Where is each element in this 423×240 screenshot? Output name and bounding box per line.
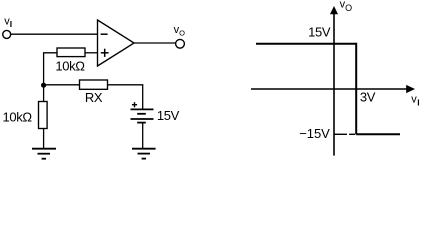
battery V1 plus sign <box>132 102 137 107</box>
svg-text:10kΩ: 10kΩ <box>3 109 33 124</box>
wire RX to battery <box>108 85 143 110</box>
svg-text:3V: 3V <box>360 90 376 105</box>
input terminal vI <box>3 30 11 38</box>
op-amp minus pin mark <box>101 33 108 35</box>
wire resistor R1 to vertical branch <box>44 53 57 102</box>
resistor RX <box>80 80 108 89</box>
svg-text:15V: 15V <box>308 24 331 39</box>
ground resistor <box>32 149 56 159</box>
battery V1 <box>131 109 154 122</box>
svg-text:RX: RX <box>85 90 103 105</box>
graph vO axis <box>333 12 335 156</box>
curve +15V level segment <box>256 43 356 45</box>
wire op-amp noninverting input to resistor R1 <box>85 52 98 54</box>
op-amp U1 <box>98 20 135 66</box>
ground battery <box>132 149 156 159</box>
op-amp plus pin mark <box>101 49 109 57</box>
svg-text:−15V: −15V <box>299 126 330 141</box>
wire battery to ground <box>142 123 144 149</box>
resistor R2 10k vertical <box>39 102 48 129</box>
svg-text:15V: 15V <box>157 108 180 123</box>
junction node A <box>41 83 46 88</box>
wire op-amp output <box>134 42 176 44</box>
wire junction to resistor RX <box>44 84 80 86</box>
dashed reference -15V to step <box>334 133 355 135</box>
graph vI axis arrowhead <box>406 85 415 93</box>
graph vI axis <box>251 88 407 90</box>
curve -15V level segment <box>356 133 400 135</box>
resistor R1 10k horizontal <box>57 48 85 57</box>
graph vO axis arrowhead <box>330 6 338 14</box>
wire vI to op-amp inverting input <box>11 33 98 35</box>
wire resistor R2 to ground <box>43 129 45 149</box>
svg-text:10kΩ: 10kΩ <box>55 58 85 73</box>
curve step at 3V <box>355 43 357 135</box>
output terminal vO <box>176 39 185 48</box>
